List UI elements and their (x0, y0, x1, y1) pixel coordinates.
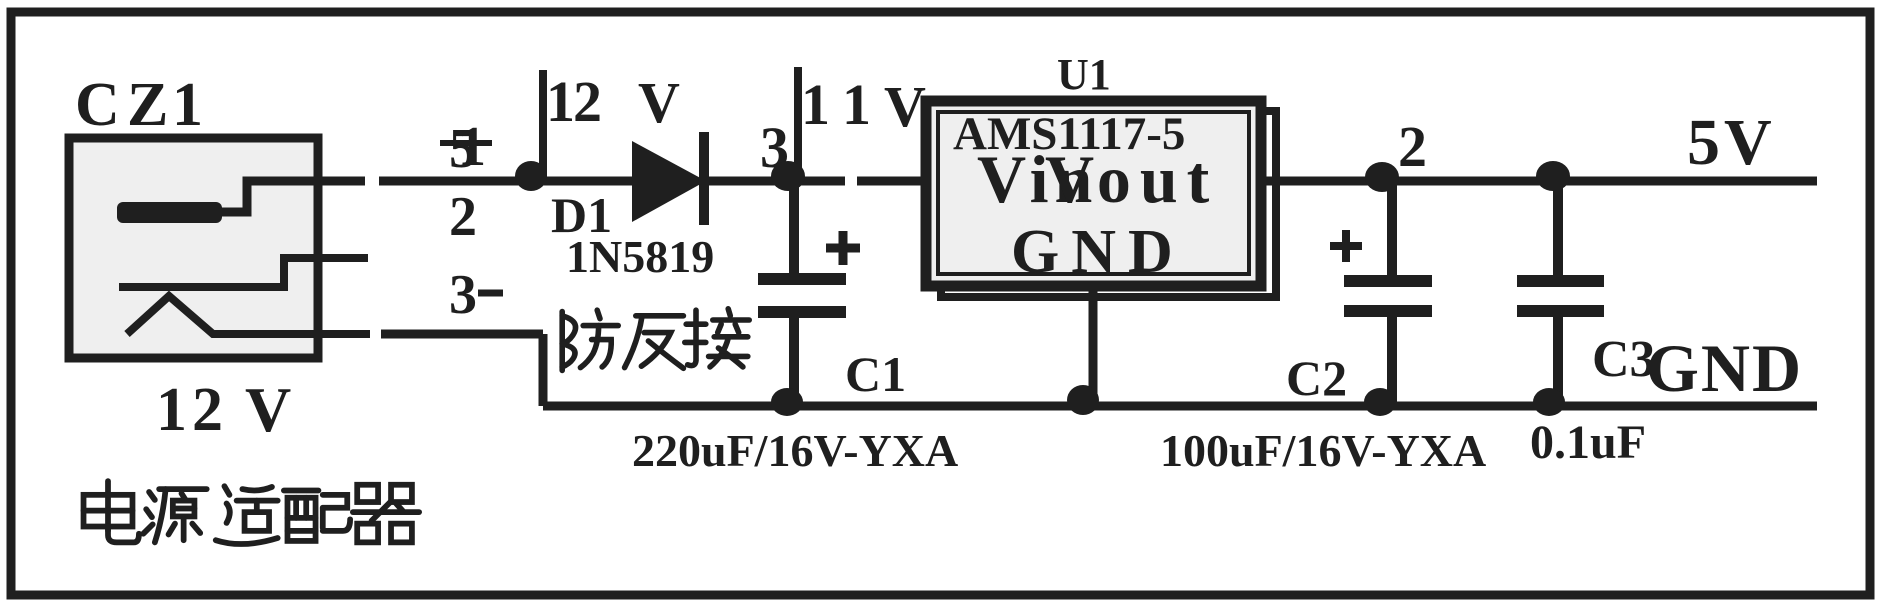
svg-text:1: 1 (801, 72, 830, 137)
svg-text:U1: U1 (1057, 50, 1111, 99)
wire pin3 to bottom rail (381, 330, 543, 339)
char jie 接 (685, 309, 749, 367)
pin label 3 struck (449, 264, 503, 326)
char shi 适 (216, 486, 278, 544)
capacitor C3 bottom lead (1553, 314, 1563, 406)
regulator U1 outer box (926, 101, 1261, 286)
svg-text:3: 3 (449, 264, 477, 326)
connector CZ1 box (69, 138, 318, 358)
adapter Chinese caption 电源适配器 (84, 481, 420, 544)
svg-text:220uF/16V-YXA: 220uF/16V-YXA (632, 425, 958, 476)
svg-text:1: 1 (842, 72, 871, 137)
svg-text:1: 1 (546, 69, 575, 134)
capacitor C1 plus sign (826, 231, 860, 265)
svg-text:V: V (638, 70, 680, 135)
svg-text:V: V (245, 374, 291, 445)
capacitor C2 bottom lead (1387, 314, 1397, 406)
capacitor C2 plates (1344, 275, 1432, 287)
wire dash to U1 (857, 177, 928, 186)
junction dot node 3 (771, 161, 805, 191)
junction dot C1 bottom (771, 388, 803, 416)
node 12V test tick (539, 70, 547, 181)
char dian 电 (84, 481, 139, 542)
capacitor C3 top lead (1553, 181, 1563, 276)
svg-text:C2: C2 (1286, 350, 1347, 406)
svg-text:5: 5 (1687, 106, 1720, 179)
svg-text:Z: Z (127, 71, 168, 139)
pin 2 wire (119, 258, 368, 287)
capacitor C2 plus sign (1330, 230, 1362, 262)
char yuan 源 (143, 489, 206, 542)
capacitor C2 top lead (1387, 181, 1397, 276)
wire top rail left (379, 177, 634, 186)
capacitor C1 plates (758, 273, 846, 285)
regulator U1 shadow (941, 111, 1276, 297)
svg-text:GND: GND (1646, 330, 1803, 406)
svg-text:Vout: Vout (1045, 141, 1218, 217)
pin 3 chevron wire (127, 296, 370, 334)
svg-text:C: C (75, 71, 120, 139)
svg-text:1: 1 (172, 71, 203, 139)
node 11V test tick (794, 67, 802, 181)
barrel jack center pin bar (117, 202, 222, 223)
wire diode to node 3 (706, 177, 845, 186)
svg-text:2: 2 (1398, 114, 1427, 179)
svg-text:C1: C1 (845, 346, 906, 402)
anti-reverse note 防反接 (562, 309, 749, 371)
regulator U1 inner box (938, 112, 1249, 274)
svg-text:100uF/16V-YXA: 100uF/16V-YXA (1160, 425, 1486, 476)
diode D1 cathode bar (699, 132, 709, 225)
capacitor C1 bottom lead (789, 315, 799, 406)
junction dot U1 GND (1067, 385, 1099, 415)
junction dot C3 top (1536, 161, 1570, 191)
capacitor C1 top lead (789, 181, 799, 276)
char pei 配 (284, 491, 350, 541)
svg-text:1N5819: 1N5819 (566, 231, 714, 282)
svg-text:GND: GND (1011, 218, 1185, 286)
junction dot node 2 (1365, 162, 1399, 192)
svg-text:V: V (1724, 106, 1772, 179)
svg-text:1: 1 (156, 376, 187, 444)
pin 1 wire from bar (220, 181, 365, 212)
svg-text:2: 2 (449, 186, 477, 248)
diode D1 triangle (632, 141, 706, 222)
svg-text:2: 2 (573, 69, 602, 134)
junction dot at diode anode (515, 161, 547, 191)
bottom rail wire (543, 402, 1817, 411)
char fang 防 (562, 310, 618, 370)
junction dot C3 bottom (1533, 388, 1565, 416)
char qi 器 (353, 485, 419, 543)
junction dot C2 bottom (1364, 388, 1396, 416)
svg-text:0.1uF: 0.1uF (1530, 416, 1646, 469)
capacitor C3 plates (1517, 275, 1604, 287)
svg-text:V: V (884, 74, 926, 139)
wire top rail right (1261, 177, 1817, 186)
svg-text:2: 2 (192, 376, 223, 444)
U1 GND pin wire (1089, 286, 1098, 406)
char fan 反 (625, 316, 684, 369)
pin label 1 over 5 struck (440, 116, 492, 180)
svg-text:1: 1 (458, 116, 486, 178)
